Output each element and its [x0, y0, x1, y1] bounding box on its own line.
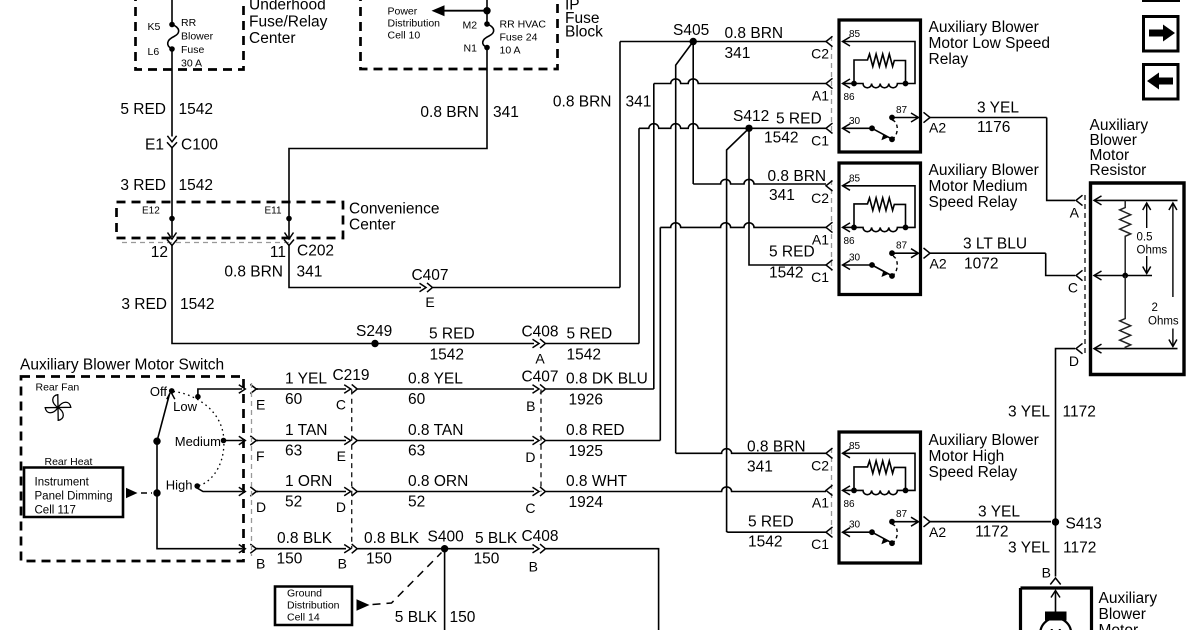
- svg-text:Block: Block: [565, 24, 603, 41]
- svg-text:1172: 1172: [1063, 404, 1096, 421]
- label 3 LT BLU 1072: [963, 236, 1027, 273]
- wire row4 0.8 BLK/5 BLK (switch B to C408 B): [256, 544, 659, 630]
- resistor connector face (dashed): [1084, 195, 1086, 354]
- label E (switch): [256, 397, 265, 413]
- svg-text:C2: C2: [811, 46, 829, 62]
- svg-text:Convenience: Convenience: [349, 201, 439, 218]
- connector C100 inline: [167, 136, 177, 148]
- svg-text:52: 52: [408, 494, 425, 511]
- svg-text:86: 86: [844, 92, 856, 103]
- svg-text:Fuse 24: Fuse 24: [500, 32, 538, 44]
- svg-text:S400: S400: [428, 529, 465, 546]
- svg-text:85: 85: [849, 173, 861, 184]
- svg-text:60: 60: [408, 391, 426, 408]
- relay medium A2 flare: [924, 248, 1046, 258]
- svg-text:N1: N1: [464, 43, 478, 55]
- svg-text:L6: L6: [148, 46, 160, 58]
- svg-text:Center: Center: [349, 217, 396, 234]
- relay high C1 flare: [826, 527, 833, 537]
- switch wire High to row3: [197, 486, 242, 492]
- label aux blower motor resistor title: [1090, 117, 1149, 179]
- svg-text:1 TAN: 1 TAN: [285, 422, 328, 439]
- svg-text:Auxiliary Blower: Auxiliary Blower: [929, 162, 1039, 179]
- svg-text:87: 87: [896, 241, 908, 252]
- svg-text:341: 341: [747, 459, 773, 476]
- label A1 (high): [812, 494, 829, 510]
- nav button next (right arrow): [1144, 17, 1179, 52]
- svg-text:A1: A1: [812, 494, 829, 510]
- switch box (dashed): [21, 377, 244, 562]
- svg-text:0.8 BRN: 0.8 BRN: [553, 94, 612, 111]
- label 5 BLK 150 (vertical): [395, 609, 476, 626]
- switch wire Low to row1: [198, 389, 242, 397]
- connector C408 A inline: [533, 339, 546, 348]
- relay high A2 flare: [924, 517, 1052, 527]
- label C407 (column): [521, 369, 558, 386]
- svg-text:30 A: 30 A: [181, 58, 202, 70]
- wire 5 RED (S249 to C408 A): [371, 343, 534, 345]
- svg-text:1542: 1542: [180, 296, 214, 313]
- label 0.8 RED 1925: [566, 422, 625, 460]
- svg-text:Fuse/Relay: Fuse/Relay: [249, 14, 328, 31]
- wire high C2 from x675.7: [676, 449, 826, 454]
- svg-text:Speed Relay: Speed Relay: [929, 194, 1018, 211]
- svg-text:0.8 BLK: 0.8 BLK: [277, 530, 333, 547]
- connector C407 face (dashed): [540, 390, 542, 492]
- wire 3 YEL 1172 (high A2 to S413): [930, 521, 1051, 523]
- label 5 RED 1542 (right of C408): [567, 326, 613, 364]
- svg-text:B: B: [256, 556, 265, 572]
- label 0.8 BRN 341 (high C2): [747, 439, 806, 476]
- svg-text:High: High: [166, 478, 193, 493]
- label 1 YEL 60: [285, 371, 327, 409]
- svg-text:M: M: [1049, 626, 1062, 630]
- label 3 RED 1542 (lower): [121, 296, 214, 313]
- svg-text:Medium: Medium: [175, 434, 221, 449]
- svg-text:0.8 BRN: 0.8 BRN: [224, 264, 283, 281]
- label 5 RED 1542 (S249 row): [429, 326, 475, 364]
- connector C202 face (dashed): [122, 242, 290, 244]
- svg-text:Underhood: Underhood: [249, 0, 326, 14]
- switch position Off: [150, 384, 175, 399]
- label C1 (high): [811, 536, 829, 552]
- label K5: [148, 21, 161, 33]
- label 0.8 BLK 150 (middle): [364, 530, 420, 567]
- svg-text:Cell 117: Cell 117: [35, 505, 76, 517]
- switch position High: [166, 478, 200, 493]
- svg-text:S405: S405: [673, 22, 709, 39]
- svg-text:0.8 ORN: 0.8 ORN: [408, 473, 468, 490]
- svg-text:C408: C408: [521, 324, 558, 341]
- label C2 (high): [811, 457, 829, 473]
- wire S412 diagonal to x726.6 down to high C1: [727, 128, 826, 532]
- label RR HVAC Fuse 24 10 A: [500, 19, 547, 57]
- resistor element 2 ohm: [1120, 276, 1131, 349]
- svg-text:30: 30: [849, 253, 861, 264]
- svg-text:D: D: [1069, 353, 1079, 369]
- label D (switch): [256, 499, 266, 515]
- svg-text:Cell 10: Cell 10: [388, 30, 421, 42]
- label aux blower motor low speed relay: [929, 19, 1051, 68]
- relay medium C2 flare: [826, 181, 833, 191]
- svg-text:1542: 1542: [769, 265, 803, 282]
- wire 5 RED (x639 to S412 to low C1): [639, 124, 826, 129]
- resistor internal C line: [1094, 271, 1152, 280]
- svg-text:0.8 BLK: 0.8 BLK: [364, 530, 420, 547]
- resistor element 0.5 ohm: [1120, 200, 1131, 275]
- svg-text:11: 11: [270, 244, 286, 261]
- svg-text:12: 12: [151, 244, 168, 261]
- svg-text:0.5: 0.5: [1137, 232, 1153, 244]
- wire 0.8 BRN (x620 to low relay C2 via S405): [620, 41, 826, 43]
- svg-text:52: 52: [285, 494, 302, 511]
- relay medium C1 flare: [826, 260, 833, 270]
- svg-text:RR: RR: [181, 17, 197, 29]
- wire 5 RED 1542 (fuse to C100): [171, 49, 173, 137]
- svg-text:87: 87: [896, 509, 908, 520]
- svg-text:87: 87: [896, 105, 908, 116]
- resistor terminal C flare: [1068, 270, 1083, 295]
- instrument panel dimming box: [24, 468, 123, 518]
- relay high speed box: [826, 432, 921, 563]
- fuse RR HVAC 24 10A: [483, 21, 494, 50]
- wire riser x660.3 (row2 to medium A1): [659, 227, 661, 440]
- svg-text:341: 341: [297, 264, 323, 281]
- terminal 11 flare: [284, 240, 294, 246]
- svg-text:30: 30: [849, 520, 861, 531]
- svg-text:0.8 BRN: 0.8 BRN: [747, 439, 806, 456]
- motor internal arrow: [1051, 591, 1060, 613]
- label Rear Heat: [45, 456, 93, 468]
- wire 0.8 BRN 341 (11 to C407 E): [289, 246, 421, 288]
- label 0.8 YEL 60: [408, 371, 463, 409]
- svg-text:Auxiliary Blower: Auxiliary Blower: [929, 19, 1039, 36]
- svg-text:5 RED: 5 RED: [748, 514, 794, 531]
- dimension arrow 2 ohms: [1169, 203, 1177, 347]
- svg-text:M2: M2: [463, 20, 478, 32]
- label 11 C202: [270, 243, 334, 262]
- svg-text:Auxiliary Blower Motor Switch: Auxiliary Blower Motor Switch: [20, 357, 224, 374]
- wire row2 1 TAN/0.8 TAN (switch F to riser): [256, 436, 660, 445]
- label C (C219): [336, 397, 346, 413]
- relay medium speed box: [826, 163, 921, 295]
- label N1: [464, 43, 478, 55]
- label E1 C100: [145, 137, 218, 154]
- svg-text:1925: 1925: [569, 443, 603, 460]
- svg-text:0.8 DK BLU: 0.8 DK BLU: [566, 371, 648, 388]
- svg-text:E: E: [337, 448, 346, 464]
- svg-text:C: C: [525, 500, 535, 516]
- svg-text:S412: S412: [733, 108, 769, 125]
- wire 5 RED (C408 A to riser): [546, 343, 639, 345]
- label 5 RED 1542 (high C1): [748, 514, 794, 551]
- svg-text:86: 86: [844, 236, 856, 247]
- svg-text:B: B: [1042, 565, 1051, 581]
- label B (C219): [338, 556, 347, 572]
- splice S249: [356, 323, 392, 347]
- convenience center box (dashed): [117, 202, 344, 238]
- label A1 (low): [812, 88, 829, 104]
- svg-text:RR HVAC: RR HVAC: [500, 19, 547, 31]
- svg-text:Auxiliary Blower: Auxiliary Blower: [929, 432, 1039, 449]
- relay high connector face: [831, 448, 833, 538]
- svg-text:1924: 1924: [569, 494, 604, 511]
- svg-text:C2: C2: [811, 190, 829, 206]
- splice S413: [1052, 516, 1102, 533]
- svg-text:5 RED: 5 RED: [429, 326, 475, 343]
- svg-text:E1: E1: [145, 137, 164, 154]
- svg-text:150: 150: [450, 609, 476, 626]
- wire 3 RED 1542 (C100 to convenience center): [171, 148, 173, 219]
- svg-text:85: 85: [849, 29, 861, 40]
- svg-text:150: 150: [277, 551, 303, 568]
- svg-text:63: 63: [408, 443, 425, 460]
- resistor internal A line: [1094, 196, 1178, 205]
- label A1 (medium): [812, 231, 829, 247]
- switch arc (dotted): [174, 392, 224, 486]
- svg-text:1 ORN: 1 ORN: [285, 473, 332, 490]
- label IP Fuse Block: [565, 0, 603, 41]
- label 0.8 BRN 341 (riser x620): [553, 94, 651, 111]
- svg-text:A: A: [535, 351, 545, 367]
- motor symbol: [1040, 612, 1071, 630]
- svg-text:3 RED: 3 RED: [120, 177, 166, 194]
- svg-text:1926: 1926: [569, 392, 603, 409]
- label C408 (A): [521, 324, 558, 341]
- svg-text:10 A: 10 A: [500, 45, 521, 57]
- label 0.8 BRN 341 (low C2): [725, 25, 784, 62]
- resistor terminal A flare: [1070, 195, 1083, 220]
- svg-text:C1: C1: [811, 269, 829, 285]
- wire row3 1 ORN/0.8 ORN/0.8 WHT (switch D to high A1): [256, 487, 826, 496]
- power distribution arrow: [432, 5, 491, 16]
- label 1 ORN 52: [285, 473, 332, 511]
- label B (switch): [256, 556, 265, 572]
- label Power Distribution Cell 10: [388, 6, 441, 42]
- terminal E12: [142, 206, 177, 240]
- svg-text:Power: Power: [388, 6, 418, 18]
- svg-text:C1: C1: [811, 536, 829, 552]
- svg-text:C408: C408: [521, 528, 558, 545]
- label B (C408): [529, 559, 538, 575]
- label 3 YEL 1172 (left of S413): [975, 504, 1020, 541]
- svg-text:341: 341: [725, 45, 751, 62]
- svg-text:1542: 1542: [179, 177, 213, 194]
- wire medium C2 from x693: [693, 179, 826, 184]
- svg-text:E12: E12: [142, 206, 160, 217]
- label C219: [332, 367, 369, 384]
- relay medium A1 flare: [826, 222, 833, 232]
- label aux blower motor medium speed relay: [929, 162, 1039, 211]
- svg-text:Rear Fan: Rear Fan: [36, 382, 80, 394]
- label aux blower motor title: [1099, 590, 1158, 630]
- svg-text:1176: 1176: [977, 119, 1010, 136]
- svg-text:D: D: [336, 499, 346, 515]
- label 5 RED 1542: [120, 101, 213, 118]
- svg-text:A1: A1: [812, 231, 829, 247]
- svg-text:341: 341: [769, 187, 795, 204]
- label C (C407): [525, 500, 535, 516]
- svg-text:63: 63: [285, 443, 302, 460]
- ip fuse block box (dashed): [361, 0, 558, 69]
- svg-text:3 YEL: 3 YEL: [1008, 540, 1050, 557]
- svg-text:150: 150: [366, 551, 392, 568]
- svg-text:1172: 1172: [1063, 540, 1096, 557]
- svg-text:1542: 1542: [748, 534, 782, 551]
- label E (C219): [337, 448, 346, 464]
- svg-text:1172: 1172: [975, 524, 1008, 541]
- label F (switch): [256, 448, 265, 464]
- label D (C407): [525, 449, 535, 465]
- svg-text:S413: S413: [1066, 516, 1102, 533]
- wire row1 1 YEL/0.8 YEL (switch E to riser): [256, 384, 654, 393]
- svg-text:1072: 1072: [964, 256, 998, 273]
- svg-text:2: 2: [1152, 302, 1158, 314]
- wire low A1 from x653.8: [654, 79, 826, 84]
- wire from top to fuse M2: [486, 0, 488, 24]
- label L6: [148, 46, 160, 58]
- label A2 (low): [929, 120, 946, 136]
- relay low connector face: [831, 36, 833, 134]
- svg-text:5 BLK: 5 BLK: [395, 609, 438, 626]
- label 5 RED 1542 (low C1): [764, 111, 822, 147]
- svg-text:60: 60: [285, 391, 303, 408]
- svg-text:A2: A2: [929, 524, 946, 540]
- switch row4 exit arrow: [239, 544, 258, 553]
- relay low C2 flare: [826, 36, 833, 46]
- wire S405 branch down x693: [692, 42, 694, 185]
- svg-text:Ohms: Ohms: [1148, 316, 1179, 328]
- svg-text:3 YEL: 3 YEL: [1008, 404, 1050, 421]
- label aux blower motor high speed relay: [929, 432, 1039, 481]
- terminal 12 flare: [167, 240, 177, 246]
- svg-text:1542: 1542: [764, 130, 798, 147]
- switch wire Medium to row2: [224, 440, 243, 442]
- label 0.8 DK BLU 1926: [566, 371, 648, 409]
- svg-text:341: 341: [493, 104, 519, 121]
- svg-text:C: C: [336, 397, 346, 413]
- switch position Low: [173, 394, 201, 414]
- label 1 TAN 63: [285, 422, 328, 460]
- svg-text:F: F: [256, 448, 265, 464]
- label A2 (medium): [930, 256, 947, 272]
- wire S412 branch down x749 to medium C1: [749, 128, 826, 265]
- label 0.8 BRN 341 (at C202): [224, 264, 322, 281]
- relay low speed box: [826, 20, 921, 152]
- wire 3 RED 1542 (12 down to S249): [172, 246, 371, 344]
- motor terminal B flare: [1050, 578, 1060, 585]
- svg-text:0.8 BRN: 0.8 BRN: [725, 25, 784, 42]
- ipd dashed link: [126, 488, 161, 498]
- wire 0.8 BRN (C407 E to riser): [433, 287, 620, 289]
- label B (motor): [1042, 565, 1051, 581]
- label 0.8 BLK 150 (switch side): [277, 530, 333, 567]
- fan icon: [45, 395, 71, 421]
- label B (C407): [526, 398, 535, 414]
- svg-text:Relay: Relay: [929, 51, 969, 68]
- nav button partial (cut off at top): [1144, 0, 1179, 1]
- svg-text:30: 30: [849, 116, 861, 127]
- motor box: [1021, 588, 1092, 630]
- wire riser x653.8 (row1 to low A1): [653, 84, 655, 390]
- svg-text:1 YEL: 1 YEL: [285, 371, 327, 388]
- svg-text:K5: K5: [148, 21, 161, 33]
- svg-text:A2: A2: [929, 120, 946, 136]
- svg-text:Panel Dimming: Panel Dimming: [35, 491, 113, 503]
- label A (C408): [535, 351, 545, 367]
- svg-text:A: A: [1070, 205, 1080, 221]
- splice S412: [733, 108, 769, 132]
- svg-text:150: 150: [474, 551, 500, 568]
- splice S400: [428, 529, 465, 553]
- label M2: [463, 20, 478, 32]
- ground distribution box: [275, 587, 352, 626]
- wire 5 RED riser x639: [638, 128, 640, 343]
- label RR Blower Fuse 30 A: [181, 17, 214, 70]
- svg-text:B: B: [338, 556, 347, 572]
- nav button prev (left arrow): [1144, 65, 1179, 100]
- label Rear Fan: [36, 382, 80, 394]
- underhood fuse/relay center box (dashed): [136, 0, 244, 70]
- wire 3 LT BLU 1072 (medium A2 to resistor C): [1046, 253, 1075, 275]
- label C408 (bottom): [521, 528, 558, 545]
- svg-text:3 RED: 3 RED: [121, 296, 167, 313]
- svg-text:B: B: [526, 398, 535, 414]
- label 3 YEL 1172 (below S413): [1008, 540, 1096, 557]
- wire S400 down: [444, 549, 446, 630]
- label Convenience Center: [349, 201, 439, 234]
- svg-text:Instrument: Instrument: [35, 477, 90, 489]
- svg-text:5 RED: 5 RED: [567, 326, 613, 343]
- svg-text:86: 86: [844, 499, 856, 510]
- resistor internal D line: [1094, 344, 1178, 353]
- label A2 (high): [929, 524, 946, 540]
- terminal E11: [265, 206, 294, 240]
- label 5 BLK 150 (right of S400): [474, 530, 518, 567]
- svg-text:D: D: [525, 449, 535, 465]
- wire resistor D down through S413 to motor: [1056, 349, 1076, 577]
- svg-text:5 RED: 5 RED: [769, 244, 815, 261]
- label 2 Ohms: [1148, 302, 1179, 328]
- switch arm (pivot to Off): [153, 392, 175, 445]
- label C2 (low): [811, 46, 829, 62]
- svg-text:Low: Low: [173, 399, 197, 414]
- label 0.8 BRN 341 (below N1): [420, 104, 518, 121]
- svg-text:C202: C202: [297, 243, 334, 260]
- svg-text:341: 341: [626, 94, 652, 111]
- connector C407 E inline: [420, 283, 433, 292]
- ground dashed link to S400: [357, 553, 442, 611]
- svg-text:1542: 1542: [430, 347, 464, 364]
- svg-text:0.8 WHT: 0.8 WHT: [566, 473, 628, 490]
- resistor box: [1091, 183, 1185, 375]
- label D (C219): [336, 499, 346, 515]
- svg-text:E: E: [256, 397, 265, 413]
- svg-text:Blower: Blower: [1099, 606, 1146, 623]
- wire 3 YEL 1176 (low A2 to resistor A): [1047, 118, 1075, 201]
- svg-text:0.8 BRN: 0.8 BRN: [768, 168, 827, 185]
- svg-text:Distribution: Distribution: [287, 600, 340, 612]
- label C407 (E): [411, 267, 448, 284]
- switch position Medium: [175, 434, 227, 449]
- label Underhood Fuse/Relay Center: [249, 0, 328, 47]
- svg-text:B: B: [529, 559, 538, 575]
- svg-text:E: E: [425, 294, 434, 310]
- svg-text:S249: S249: [356, 323, 392, 340]
- relay high C2 flare: [826, 448, 833, 458]
- label 12: [151, 244, 168, 261]
- svg-text:Motor High: Motor High: [929, 448, 1005, 465]
